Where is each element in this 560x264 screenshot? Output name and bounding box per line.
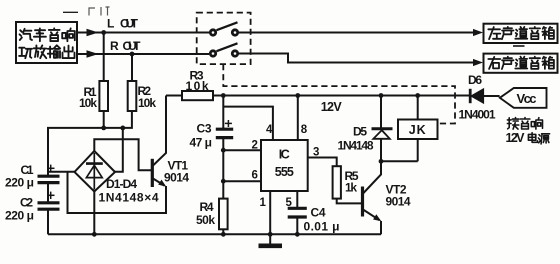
node pin6: [221, 179, 226, 184]
node R1 bottom: [101, 126, 106, 131]
Vcc supply tag: [500, 88, 547, 108]
svg-text:220 μ: 220 μ: [5, 209, 34, 223]
relay contact JK-1 (L channel): [209, 28, 217, 36]
source box 汽车音响功放输出: [16, 22, 77, 63]
wire JK to VT2 collector: [381, 160, 418, 162]
node pin2/C3: [221, 148, 226, 153]
relay contact JK-2 (R channel): [209, 49, 217, 57]
svg-text:0.01 μ: 0.01 μ: [304, 220, 340, 234]
svg-text:5: 5: [286, 197, 293, 209]
wire bridge left vertex to C1: [48, 171, 76, 173]
node rail/pin8: [295, 93, 300, 98]
svg-text:6: 6: [252, 169, 258, 181]
wire R OUT: [77, 53, 209, 55]
svg-text:R: R: [110, 39, 119, 53]
bridge rectifier D1-D4: [75, 151, 116, 192]
node R4/ground rail: [221, 232, 226, 237]
scan artifact top mark: [89, 7, 110, 16]
capacitor C1: [47, 128, 49, 176]
resistor R3: [166, 95, 182, 97]
wire bridge bottom to ground rail: [93, 192, 95, 235]
svg-text:10k: 10k: [79, 96, 97, 110]
svg-text:OUT: OUT: [120, 17, 139, 31]
diode D5 1N4148 flyback: [380, 96, 382, 129]
wire pin 2: [223, 149, 261, 151]
resistor R4: [219, 199, 228, 230]
VT2 emitter arrow: [373, 214, 381, 221]
svg-text:L: L: [107, 17, 114, 31]
resistor R1: [103, 34, 105, 81]
plus sign C1: [47, 167, 55, 169]
resistor R5: [333, 166, 341, 198]
svg-text:1N4148×4: 1N4148×4: [99, 191, 159, 205]
svg-text:50k: 50k: [196, 213, 215, 227]
svg-text:12V: 12V: [321, 100, 343, 114]
wire pin 3 output: [308, 158, 337, 167]
svg-text:47 μ: 47 μ: [190, 136, 213, 150]
svg-text:10k: 10k: [138, 96, 156, 110]
wire pin 8: [297, 96, 299, 141]
wire R1/R2 bottom bus: [48, 111, 132, 176]
plus sign C2: [47, 194, 55, 196]
svg-text:12V: 12V: [506, 131, 526, 145]
svg-text:D5: D5: [353, 125, 367, 139]
VT1 emitter arrow: [158, 180, 166, 187]
wire tap to bridge right vertex: [115, 128, 123, 172]
scan artifact top-left dash: [63, 11, 78, 13]
wire bridge top to VT1 base: [94, 139, 151, 170]
diode D6 1N4001: [469, 89, 472, 103]
capacitor C2: [38, 201, 60, 204]
wire R5 to VT2 base: [337, 199, 361, 204]
label 接音响: [507, 118, 518, 130]
node rail/D5: [379, 93, 384, 98]
svg-text:1N4001: 1N4001: [459, 108, 496, 122]
node L OUT / R1 top: [101, 30, 106, 35]
node bridge AC tap: [120, 126, 125, 131]
svg-text:D1-D4: D1-D4: [106, 177, 137, 191]
left speaker box 左声道音箱: [484, 24, 558, 43]
svg-text:IC: IC: [279, 148, 290, 162]
svg-text:JK: JK: [409, 123, 427, 137]
node rail/C3: [221, 93, 226, 98]
dashed relay linkage: [223, 64, 455, 123]
ground rail wire: [48, 233, 381, 235]
wire L OUT: [77, 32, 209, 34]
node VT2 collector / D5 / JK: [379, 159, 384, 164]
relay coil JK: [417, 96, 419, 120]
svg-text:4: 4: [266, 124, 273, 136]
wire pin 4 reset: [223, 107, 273, 140]
svg-text:9014: 9014: [164, 171, 189, 185]
node R OUT / R2 top: [130, 52, 135, 57]
relay contacts dashed box: [197, 13, 251, 65]
wire 12V supply rail: [213, 95, 471, 97]
svg-text:8: 8: [301, 124, 308, 136]
svg-text:10k: 10k: [186, 79, 209, 93]
svg-text:D6: D6: [468, 73, 482, 87]
svg-text:3: 3: [313, 147, 319, 159]
transistor VT2: [361, 187, 364, 217]
right speaker box 右声道音箱: [484, 54, 558, 73]
node pin5/ground rail: [295, 232, 300, 237]
wire L OUT to left speaker: [239, 32, 478, 34]
plus sign C3: [225, 122, 232, 124]
node rail/JK: [415, 93, 420, 98]
svg-text:1k: 1k: [345, 181, 357, 195]
svg-text:555: 555: [275, 165, 294, 179]
svg-text:1: 1: [260, 197, 267, 209]
resistor R2: [131, 56, 133, 81]
svg-text:1N4148: 1N4148: [338, 139, 374, 153]
IC 555 timer: [261, 140, 308, 191]
svg-text:OUT: OUT: [123, 39, 142, 53]
ground symbol: [269, 234, 271, 244]
svg-text:220 μ: 220 μ: [5, 176, 34, 190]
svg-text:C4: C4: [311, 206, 326, 220]
node bridge bottom / ground: [92, 232, 97, 237]
wire R OUT to right speaker: [239, 54, 478, 63]
wire pin 6: [223, 180, 261, 182]
scan artifact between speaker boxes: [513, 45, 525, 47]
capacitor C3: [222, 96, 224, 129]
svg-text:Vcc: Vcc: [517, 91, 537, 106]
wire VT1 emitter return: [68, 172, 167, 213]
svg-text:C2: C2: [20, 196, 33, 210]
svg-text:9014: 9014: [386, 195, 411, 209]
transistor VT1: [151, 159, 154, 187]
node pin1/ground rail: [268, 232, 273, 237]
wire pin 1 to ground: [269, 191, 271, 234]
svg-text:2: 2: [252, 139, 258, 151]
svg-text:C3: C3: [197, 122, 212, 136]
svg-text:R4: R4: [200, 200, 214, 214]
capacitor C4 / pin 5: [296, 191, 298, 208]
